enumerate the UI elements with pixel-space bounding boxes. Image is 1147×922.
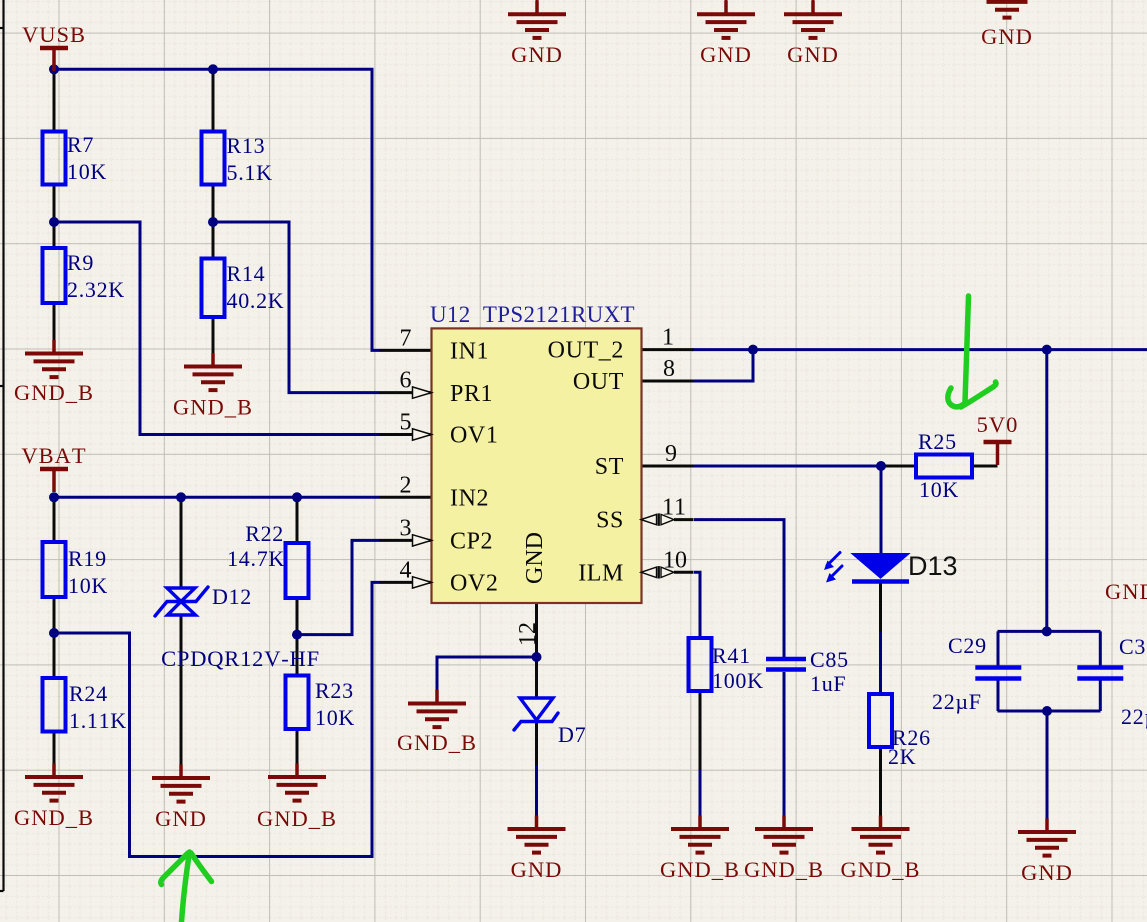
- svg-text:GND: GND: [522, 532, 548, 584]
- svg-text:OUT_2: OUT_2: [548, 338, 624, 364]
- svg-text:GND: GND: [511, 857, 563, 882]
- svg-text:IN2: IN2: [450, 486, 489, 512]
- svg-text:7: 7: [400, 325, 412, 351]
- svg-text:12: 12: [515, 622, 541, 646]
- svg-text:GND_B: GND_B: [14, 805, 94, 830]
- svg-text:OV2: OV2: [450, 571, 498, 597]
- svg-text:5.1K: 5.1K: [227, 160, 273, 185]
- svg-text:10K: 10K: [315, 705, 355, 730]
- svg-text:VBAT: VBAT: [21, 443, 86, 468]
- svg-text:PR1: PR1: [450, 381, 493, 407]
- svg-text:GND: GND: [787, 42, 839, 67]
- svg-text:C29: C29: [948, 633, 987, 658]
- svg-text:ST: ST: [595, 454, 624, 480]
- svg-text:C30: C30: [1119, 634, 1147, 659]
- svg-text:GND: GND: [700, 42, 752, 67]
- svg-text:9: 9: [665, 441, 677, 467]
- svg-text:2: 2: [400, 472, 412, 498]
- svg-text:OV1: OV1: [450, 423, 498, 449]
- svg-text:22µF: 22µF: [1121, 704, 1147, 729]
- svg-text:14.7K: 14.7K: [227, 546, 285, 571]
- svg-text:SS: SS: [596, 508, 624, 534]
- svg-text:GND_B: GND_B: [1105, 579, 1147, 604]
- svg-text:ILM: ILM: [578, 560, 624, 586]
- svg-text:R41: R41: [712, 643, 751, 668]
- svg-text:10K: 10K: [67, 159, 107, 184]
- svg-text:D13: D13: [908, 551, 958, 581]
- svg-text:R7: R7: [67, 132, 94, 157]
- svg-text:22µF: 22µF: [932, 689, 982, 714]
- svg-text:1uF: 1uF: [810, 671, 846, 696]
- svg-text:5: 5: [400, 410, 412, 436]
- svg-text:10K: 10K: [919, 477, 959, 502]
- svg-text:GND_B: GND_B: [660, 857, 740, 882]
- svg-text:R25: R25: [918, 429, 957, 454]
- svg-text:D12: D12: [212, 584, 252, 609]
- svg-text:R24: R24: [69, 681, 108, 706]
- svg-text:U12 TPS2121RUXT: U12 TPS2121RUXT: [430, 302, 635, 327]
- svg-text:1: 1: [662, 325, 674, 351]
- svg-text:1.11K: 1.11K: [69, 708, 127, 733]
- svg-text:IN1: IN1: [450, 339, 489, 365]
- svg-text:4: 4: [400, 557, 412, 583]
- svg-text:2.32K: 2.32K: [67, 277, 125, 302]
- svg-text:CP2: CP2: [450, 529, 493, 555]
- svg-text:100K: 100K: [712, 668, 764, 693]
- svg-text:R22: R22: [245, 521, 284, 546]
- svg-text:3: 3: [400, 515, 412, 541]
- svg-text:GND_B: GND_B: [744, 857, 824, 882]
- svg-text:R14: R14: [227, 261, 266, 286]
- svg-text:GND_B: GND_B: [257, 806, 337, 831]
- svg-text:D7: D7: [558, 722, 586, 747]
- svg-text:5V0: 5V0: [977, 412, 1019, 437]
- svg-text:VUSB: VUSB: [22, 22, 86, 47]
- svg-text:R19: R19: [68, 546, 107, 571]
- svg-text:2K: 2K: [888, 744, 916, 769]
- svg-text:GND: GND: [511, 42, 563, 67]
- svg-text:R23: R23: [315, 678, 354, 703]
- svg-text:8: 8: [663, 356, 675, 382]
- svg-text:GND_B: GND_B: [840, 857, 920, 882]
- svg-text:CPDQR12V-HF: CPDQR12V-HF: [161, 646, 320, 671]
- svg-text:10K: 10K: [68, 573, 108, 598]
- svg-text:GND: GND: [1021, 860, 1073, 885]
- svg-text:GND_B: GND_B: [397, 730, 477, 755]
- svg-text:GND_B: GND_B: [173, 395, 253, 420]
- svg-text:GND: GND: [155, 806, 207, 831]
- svg-text:GND: GND: [981, 24, 1033, 49]
- svg-text:6: 6: [400, 368, 412, 394]
- svg-text:GND_B: GND_B: [14, 380, 94, 405]
- svg-text:R13: R13: [227, 133, 266, 158]
- svg-text:R9: R9: [67, 250, 94, 275]
- svg-text:OUT: OUT: [573, 369, 624, 395]
- svg-text:C85: C85: [810, 647, 849, 672]
- svg-text:40.2K: 40.2K: [227, 288, 285, 313]
